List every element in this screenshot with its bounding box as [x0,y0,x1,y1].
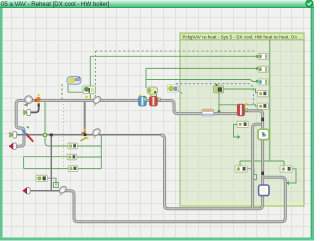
title bar button [306,0,313,7]
flow arrow on riser [261,118,264,122]
bottom mux box right [280,166,292,172]
mux box 4 [258,91,269,97]
dashed control line vertical x95 [95,51,97,97]
green port squares near coils [144,98,161,101]
green wire: VAV right bus [77,135,101,168]
bottom mux box left [235,166,247,172]
duct: exhaust line to stub (thin) [30,190,65,192]
flow arrow above room box [261,172,264,175]
window title bar [0,0,314,8]
duct: branch from riser to second down-pipe [253,124,261,208]
dashed control line horizontal y51 [96,50,257,52]
green wire: left bottom box to pipe node [247,169,257,180]
damper port dot [27,126,29,128]
OA inlet arrow (green) [10,132,17,138]
duct: room node to far right riser and long bottom return [64,177,285,222]
dotted sensor line x63 [62,104,64,168]
reheat coil (red) [237,103,247,116]
green wire: bracket x146 to pill [145,68,147,88]
multiplex title text [183,34,301,39]
humidifier teardrop on supply duct [90,95,102,106]
green wire: controller to mux box 4 [222,89,258,93]
dashed control line vertical x62 [61,84,63,101]
junction node on return (starburst) [81,129,89,141]
sensor dot above recirc junction [85,96,88,99]
blue dashed signal line [176,84,253,104]
duct: node drop to recirc inlet [30,103,39,112]
green wire: controller duct sensor [218,105,221,113]
cooling coil (blue) [139,94,147,106]
green wire: weather box to site comp [68,84,83,92]
green wire: mux box2 line [146,67,257,69]
green wire: mux box3 line [146,80,257,82]
green wire: pill stub [156,94,158,99]
VAV box 1 [68,143,78,149]
mux box 2 [256,66,268,72]
duct: fan S-bend to exhaust stub [16,101,26,147]
green wire: mux box1 line [90,55,257,57]
duct: main supply run [32,101,238,114]
duct: return air line (thin) [14,134,161,136]
VAV box 3 [68,166,78,172]
mux box 3 [256,79,268,85]
room box (blue) [259,185,269,196]
zone sensor box below reheat coil [237,121,248,127]
zone control component lower left [36,175,47,181]
damper X [22,130,33,142]
green wire: controller to mux box 5 [219,93,258,107]
green wire: zone sensor bracket [234,125,241,140]
exhaust outlet arrow (red) top [9,143,16,149]
green wire: right bottom box L [286,169,296,185]
exhaust outlet arrow (red) bottom [23,188,30,194]
recirculation inlet arrow (green) [24,109,31,115]
duct: exhaust drop x51 [50,134,53,191]
multiplex green region [180,33,304,206]
site/ground component [83,86,95,94]
proportional controller (green box with dark square) [214,84,224,93]
sensor square on return at x45 [43,133,46,136]
filter on supply duct [202,109,214,116]
duct: reheat coil to right riser down to room and return corner [161,111,263,209]
sensor node cluster after fan [35,94,40,107]
green wire: zone comp to exhaust fan [47,178,58,187]
duct: recirculation drop x85 [84,102,86,134]
svg-text:05 a VAV - Reheat [DX cool - H: 05 a VAV - Reheat [DX cool - HW boiler] [1,1,110,8]
weather/outside air component [67,77,81,85]
profile controller icon (yellow-green dot) [167,85,178,92]
green wire: VAV left feeds [24,102,68,169]
VAV box 2 [67,154,77,160]
exhaust fan teardrop [57,185,69,196]
pump teardrop on return line [90,127,102,138]
zone terminal fan box [258,129,269,139]
green wire: mux right bus x270 [240,40,284,166]
controller pill above heating coil [147,87,158,94]
svg-text:PckgVAV re-heat - Sys 5 - DX c: PckgVAV re-heat - Sys 5 - DX cool, HW he… [183,34,301,39]
heating coil (red) [150,94,158,106]
window title text [1,1,110,8]
green wire: vertical x90 [89,56,91,101]
supply fan (volute) [25,96,33,106]
mux box 1 [256,53,268,59]
mux box 5 [258,103,269,109]
